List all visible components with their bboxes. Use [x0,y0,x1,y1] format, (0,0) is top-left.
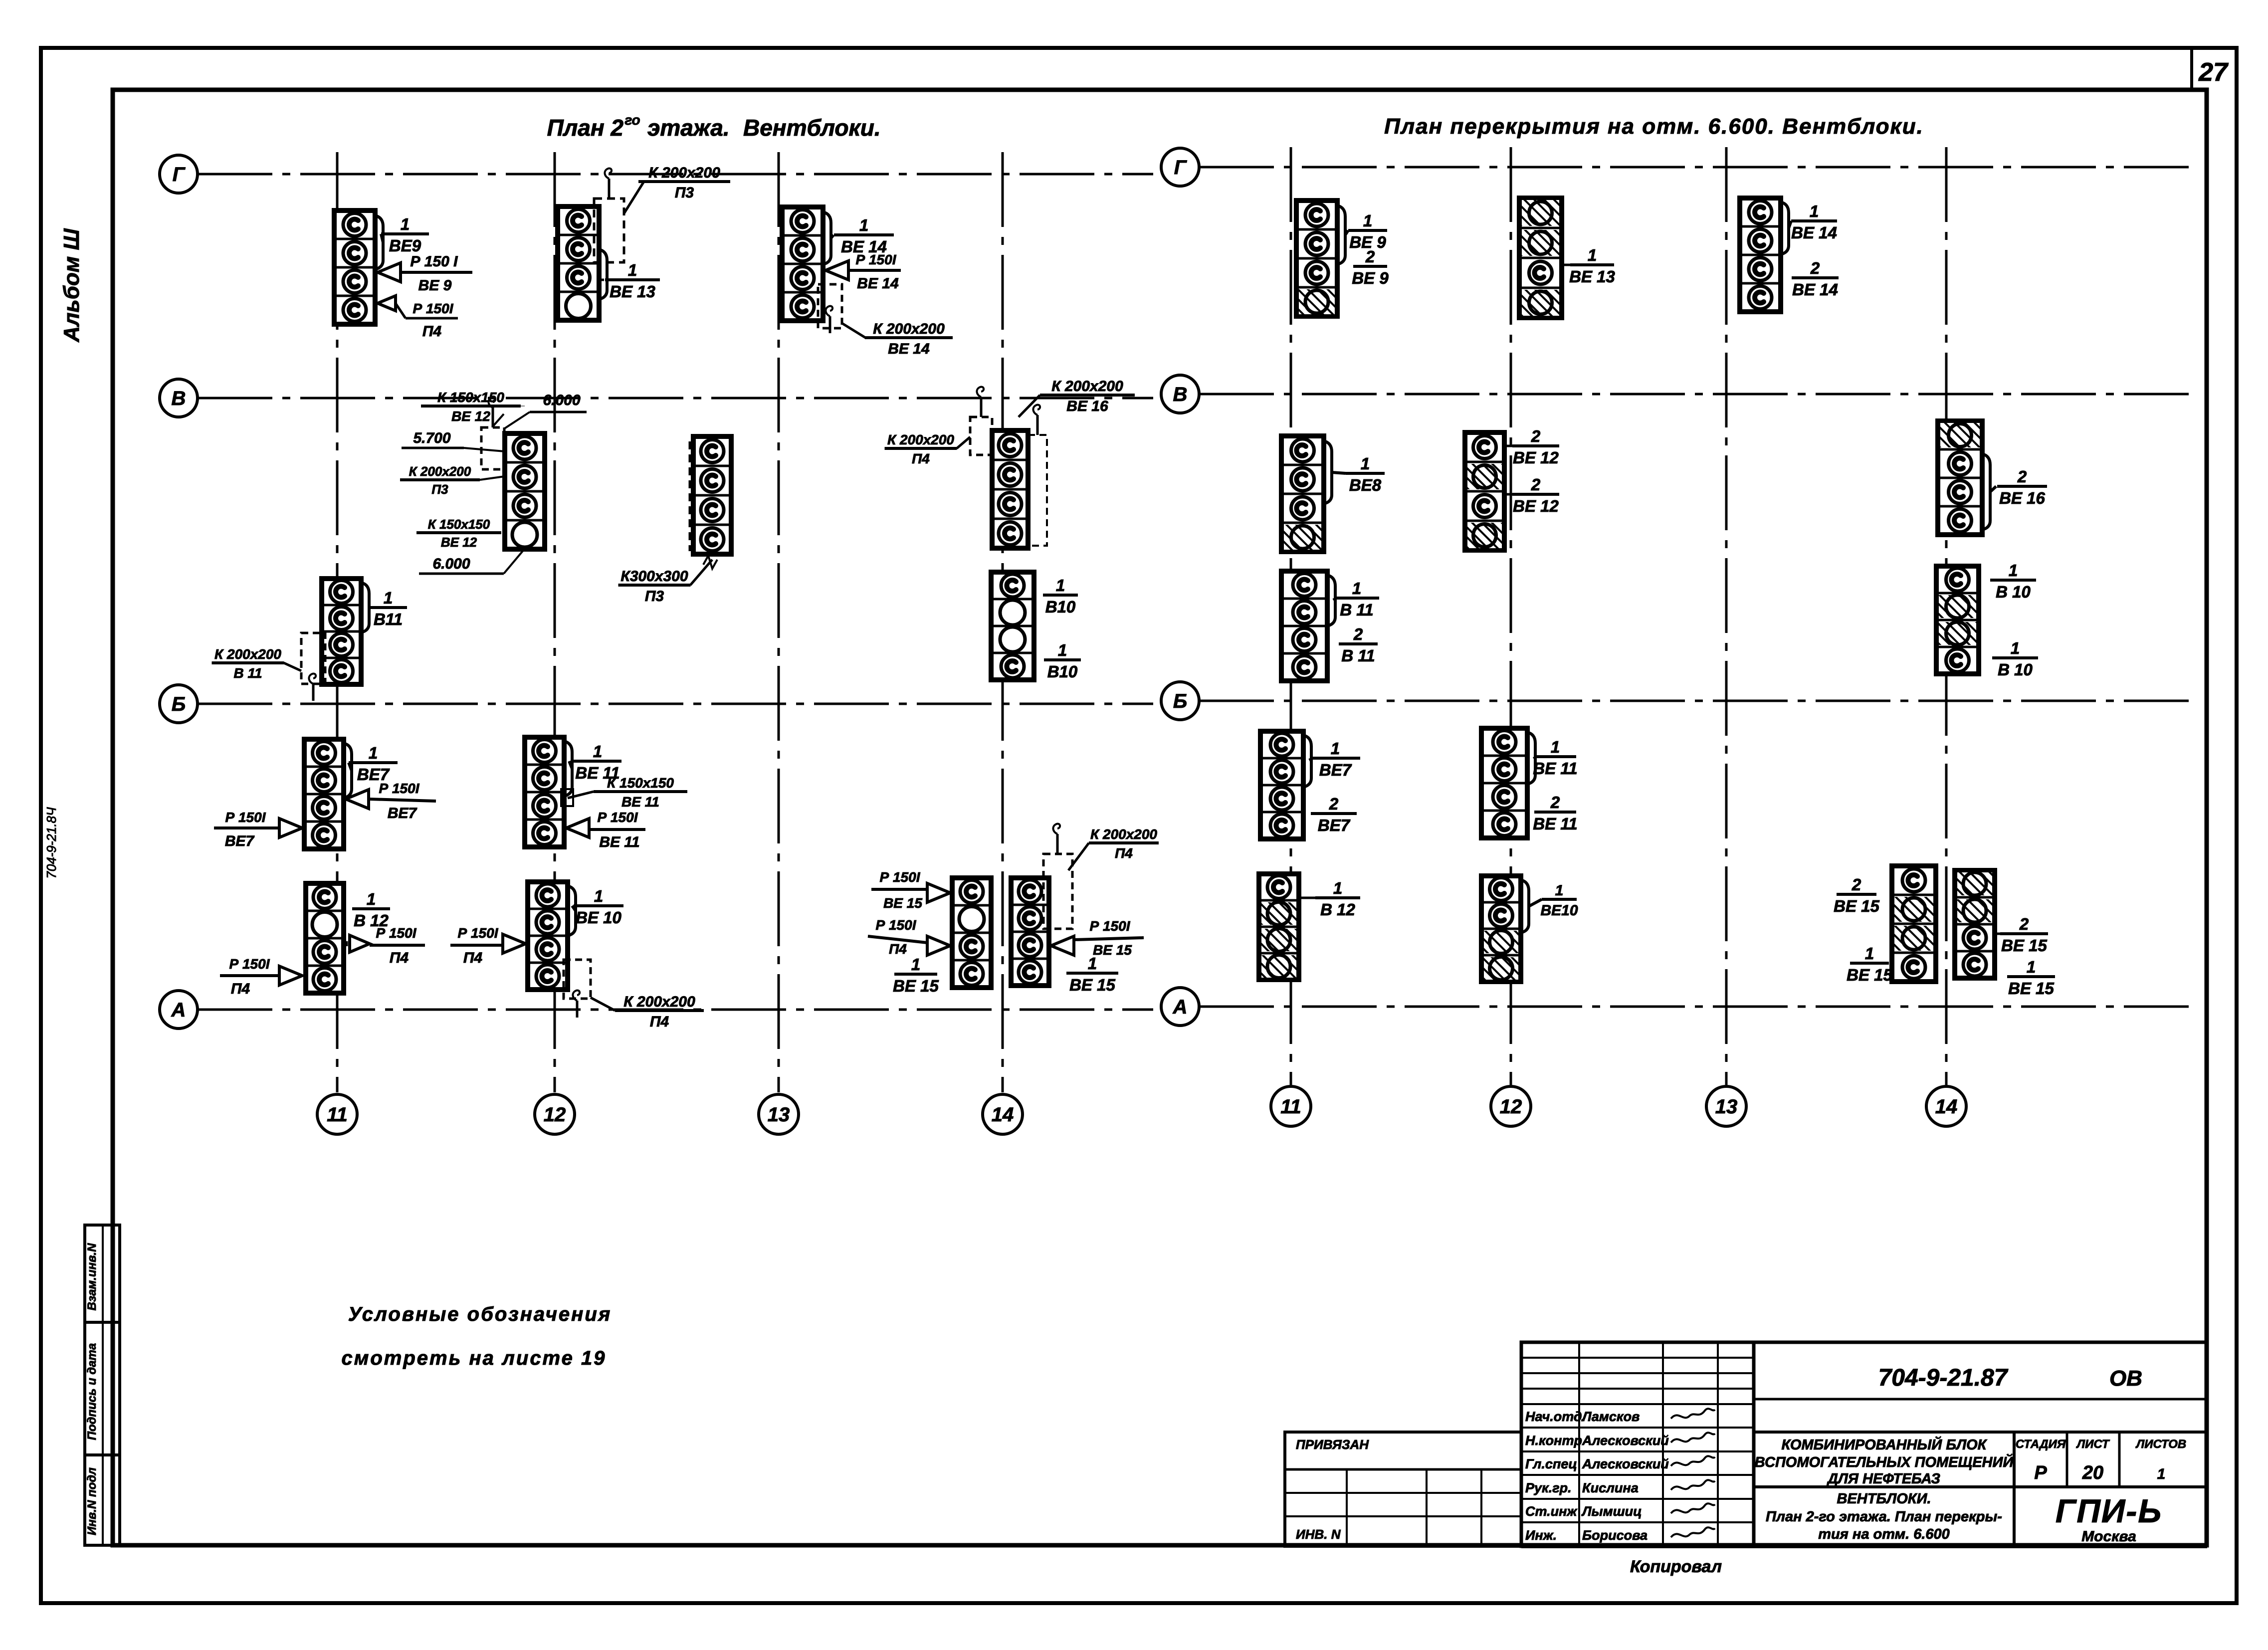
svg-text:В: В [172,388,186,410]
svg-text:ВСПОМОГАТЕЛЬНЫХ ПОМЕЩЕНИЙ: ВСПОМОГАТЕЛЬНЫХ ПОМЕЩЕНИЙ [1755,1453,2014,1470]
svg-text:ВЕ 15: ВЕ 15 [883,895,922,911]
svg-text:П3: П3 [675,185,694,201]
svg-text:П3: П3 [645,588,664,605]
svg-text:Р 150 I: Р 150 I [410,253,458,270]
svg-text:1: 1 [2011,639,2020,657]
svg-text:В 10: В 10 [1996,583,2031,601]
svg-text:Р 150I: Р 150I [598,810,638,825]
svg-text:В: В [1173,384,1188,406]
svg-text:1: 1 [628,261,637,279]
svg-text:1: 1 [593,742,602,761]
svg-text:Р 150I: Р 150I [876,917,917,933]
svg-text:ВЕ 14: ВЕ 14 [857,275,899,292]
svg-text:704-9-21.87: 704-9-21.87 [1878,1365,2009,1391]
svg-text:ВЕ 14: ВЕ 14 [1791,223,1837,242]
svg-text:Г: Г [1174,157,1188,179]
svg-text:К 200х200: К 200х200 [214,646,281,662]
svg-text:тия на отм. 6.600: тия на отм. 6.600 [1818,1526,1950,1542]
svg-text:1: 1 [367,890,376,908]
svg-text:Подпись и дата: Подпись и дата [85,1343,99,1441]
svg-text:1: 1 [1088,954,1097,973]
svg-text:11: 11 [327,1104,348,1126]
svg-text:5.700: 5.700 [413,430,450,446]
svg-text:В10: В10 [1045,598,1076,616]
svg-text:704-9-21.8Ч: 704-9-21.8Ч [44,807,59,879]
svg-text:ЛИСТОВ: ЛИСТОВ [2135,1438,2187,1451]
svg-text:2: 2 [2017,467,2027,486]
svg-text:2: 2 [1852,875,1861,894]
svg-text:ВЕ 12: ВЕ 12 [441,535,477,550]
svg-text:Р 150I: Р 150I [880,869,921,885]
svg-text:Инв.N подл: Инв.N подл [85,1467,99,1535]
svg-text:Ламсков: Ламсков [1581,1409,1640,1424]
svg-text:СТАДИЯ: СТАДИЯ [2016,1438,2066,1451]
svg-text:1: 1 [1551,738,1560,756]
svg-text:6.000: 6.000 [432,556,470,572]
svg-text:1: 1 [1333,879,1342,897]
svg-text:Р 150I: Р 150I [376,925,417,941]
svg-text:К300х300: К300х300 [620,568,688,585]
svg-text:ВЕ 10: ВЕ 10 [576,908,621,927]
svg-text:ВЕ 15: ВЕ 15 [1847,966,1892,984]
svg-text:14: 14 [1935,1096,1958,1118]
svg-text:13: 13 [768,1104,790,1126]
svg-text:ВЕ 9: ВЕ 9 [1352,269,1389,287]
svg-text:ВЕ 11: ВЕ 11 [621,794,659,810]
svg-text:ИНВ. N: ИНВ. N [1296,1527,1341,1542]
svg-text:ВЕ 13: ВЕ 13 [610,282,655,301]
svg-text:2: 2 [1353,625,1363,643]
svg-text:го: го [624,112,640,128]
svg-text:1: 1 [2027,958,2036,976]
svg-text:ВЕ 13: ВЕ 13 [1569,267,1615,286]
svg-text:ВЕ 15: ВЕ 15 [893,977,939,995]
svg-text:К 200х200: К 200х200 [648,165,720,181]
svg-text:Алесковский: Алесковский [1582,1433,1669,1448]
svg-text:П4: П4 [912,451,930,466]
svg-text:Р 150I: Р 150I [225,810,266,825]
svg-text:ПРИВЯЗАН: ПРИВЯЗАН [1296,1437,1369,1452]
svg-text:ВЕ7: ВЕ7 [388,805,417,822]
svg-text:ОВ: ОВ [2109,1366,2142,1391]
svg-text:Алесковский: Алесковский [1582,1456,1669,1471]
svg-text:ВЕ 11: ВЕ 11 [599,834,639,850]
svg-text:П4: П4 [1115,845,1133,861]
svg-text:Р 150I: Р 150I [413,301,454,316]
svg-text:1: 1 [1865,944,1874,963]
svg-text:План 2-го этажа. План перекры-: План 2-го этажа. План перекры- [1766,1509,2002,1525]
svg-text:ВЕ7: ВЕ7 [225,833,255,849]
svg-text:ВЕ 16: ВЕ 16 [1999,489,2045,507]
svg-text:1: 1 [859,216,868,234]
svg-text:К 200х200: К 200х200 [1090,826,1157,842]
svg-text:Борисова: Борисова [1582,1528,1648,1543]
svg-text:Р: Р [2034,1462,2047,1483]
svg-text:Рук.гр.: Рук.гр. [1525,1480,1572,1495]
svg-text:27: 27 [2198,58,2229,87]
svg-text:ВЕ 12: ВЕ 12 [1513,497,1559,515]
svg-text:1: 1 [1361,454,1370,473]
svg-text:ЛИСТ: ЛИСТ [2076,1438,2110,1451]
svg-text:В11: В11 [374,610,403,628]
svg-text:В 11: В 11 [1340,601,1373,619]
svg-text:2: 2 [2019,915,2029,933]
svg-text:13: 13 [1715,1096,1738,1118]
svg-text:Р 150I: Р 150I [856,252,897,267]
svg-text:Взам.инв.N: Взам.инв.N [85,1243,99,1311]
svg-text:ВЕ7: ВЕ7 [1319,761,1352,779]
svg-text:ВЕ 11: ВЕ 11 [1533,759,1577,778]
svg-text:ВЕ 14: ВЕ 14 [1792,280,1838,299]
svg-text:А: А [171,999,186,1021]
svg-text:1: 1 [1363,211,1372,230]
svg-text:6.000: 6.000 [543,392,580,409]
svg-text:Инж.: Инж. [1525,1528,1557,1543]
svg-text:Б: Б [172,693,186,715]
svg-text:Р 150I: Р 150I [229,956,270,972]
svg-text:Ст.инж: Ст.инж [1525,1504,1578,1519]
svg-text:1: 1 [2009,561,2018,580]
svg-text:П4: П4 [463,950,483,966]
svg-text:1: 1 [1056,576,1065,595]
svg-text:К 150х150: К 150х150 [428,517,490,532]
svg-text:14: 14 [992,1104,1014,1126]
svg-text:ВЕ 15: ВЕ 15 [2001,936,2047,955]
svg-text:ДЛЯ НЕФТЕБАЗ: ДЛЯ НЕФТЕБАЗ [1826,1471,1940,1487]
svg-text:ВЕ 9: ВЕ 9 [418,277,452,294]
svg-text:ВЕ 15: ВЕ 15 [1834,897,1879,915]
svg-text:ВЕ9: ВЕ9 [389,236,421,255]
svg-text:Вентблоки.: Вентблоки. [743,115,881,141]
svg-text:1: 1 [1058,641,1067,659]
svg-text:П4: П4 [889,941,907,957]
svg-text:К 200х200: К 200х200 [887,432,954,447]
svg-text:К 200х200: К 200х200 [623,994,695,1010]
svg-text:ВЕ 15: ВЕ 15 [2008,979,2054,998]
svg-text:12: 12 [544,1104,566,1126]
svg-text:2: 2 [1810,259,1820,277]
svg-text:2: 2 [1531,427,1541,445]
svg-text:А: А [1173,996,1188,1018]
svg-text:В 11: В 11 [233,665,262,681]
svg-text:К 150х150: К 150х150 [607,775,674,791]
svg-text:20: 20 [2082,1462,2103,1483]
svg-text:ВЕ 15: ВЕ 15 [1069,976,1115,994]
svg-text:ВЕ8: ВЕ8 [1349,476,1382,494]
svg-text:Гл.спец: Гл.спец [1525,1456,1577,1471]
svg-text:Р 150I: Р 150I [1090,918,1131,934]
svg-text:1: 1 [401,215,410,233]
svg-text:ВЕ 12: ВЕ 12 [451,409,490,424]
svg-text:Копировал: Копировал [1630,1557,1722,1576]
svg-text:1: 1 [384,589,393,607]
svg-text:1: 1 [911,955,920,974]
svg-text:12: 12 [1500,1096,1522,1118]
svg-text:Кислина: Кислина [1582,1480,1639,1495]
svg-text:ВЕНТБЛОКИ.: ВЕНТБЛОКИ. [1837,1491,1931,1507]
svg-text:Р 150I: Р 150I [379,781,420,796]
svg-text:П4: П4 [390,950,409,966]
svg-text:ВЕ 11: ВЕ 11 [1533,815,1577,833]
svg-text:1: 1 [1331,739,1340,758]
svg-text:2: 2 [1531,475,1541,494]
svg-text:Москва: Москва [2081,1528,2136,1545]
svg-text:Условные обозначения: Условные обозначения [348,1303,612,1325]
svg-text:К 200х200: К 200х200 [873,321,945,337]
svg-text:ВЕ 14: ВЕ 14 [888,341,930,357]
svg-text:ВЕ 16: ВЕ 16 [1066,398,1108,414]
svg-text:К 200х200: К 200х200 [1051,378,1123,395]
svg-text:В 11: В 11 [1341,646,1375,665]
svg-text:11: 11 [1280,1096,1301,1118]
svg-text:Б: Б [1173,690,1187,712]
svg-text:2: 2 [1365,247,1375,266]
svg-text:Нач.отд.: Нач.отд. [1525,1409,1586,1424]
svg-text:1: 1 [2157,1466,2166,1482]
svg-text:ВЕ 12: ВЕ 12 [1513,448,1559,467]
svg-text:КОМБИНИРОВАННЫЙ БЛОК: КОМБИНИРОВАННЫЙ БЛОК [1781,1436,1987,1453]
svg-text:1: 1 [594,887,603,905]
svg-text:1: 1 [1352,579,1361,598]
svg-text:В10: В10 [1047,662,1078,681]
svg-text:смотреть на листе 19: смотреть на листе 19 [342,1347,607,1369]
svg-text:1: 1 [369,744,378,762]
svg-text:Альбом Ш: Альбом Ш [59,228,84,342]
svg-text:ВЕ7: ВЕ7 [1318,816,1351,834]
svg-text:ГПИ-Ь: ГПИ-Ь [2056,1492,2162,1529]
svg-text:ВЕ 15: ВЕ 15 [1093,942,1132,958]
svg-text:Р 150I: Р 150I [458,925,499,941]
svg-text:К 200х200: К 200х200 [409,464,471,479]
svg-text:Н.контр: Н.контр [1525,1433,1582,1448]
svg-text:1: 1 [1588,246,1597,264]
svg-text:План 2: План 2 [547,115,624,141]
svg-text:1: 1 [1555,882,1564,899]
svg-text:Лымшиц: Лымшиц [1581,1504,1642,1519]
svg-text:1: 1 [1810,202,1819,220]
svg-text:В 12: В 12 [1320,900,1355,919]
svg-text:К 150х150: К 150х150 [437,390,504,405]
svg-text:П4: П4 [422,323,442,340]
svg-text:П4: П4 [231,981,250,997]
svg-text:ВЕ10: ВЕ10 [1540,902,1578,919]
svg-text:2: 2 [1550,793,1560,812]
svg-text:Г: Г [173,164,186,186]
svg-text:П4: П4 [650,1014,669,1030]
svg-text:2: 2 [1329,795,1339,813]
svg-text:В 10: В 10 [1998,660,2033,679]
svg-text:План перекрытия на отм. 6.600.: План перекрытия на отм. 6.600. Вентблоки… [1384,114,1924,139]
svg-text:П3: П3 [431,482,448,497]
svg-text:этажа.: этажа. [647,115,730,141]
